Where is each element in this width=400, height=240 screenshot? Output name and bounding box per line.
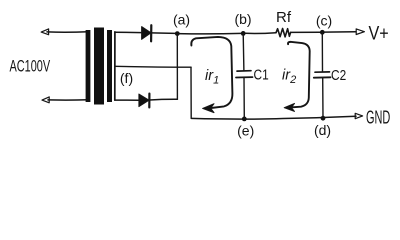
arrowhead [356, 29, 364, 35]
node e [242, 117, 247, 122]
svg-text:C1: C1 [254, 66, 269, 82]
wire [47, 31, 88, 34]
diode D1 [142, 25, 152, 41]
svg-text:GND: GND [366, 107, 390, 128]
label GND [366, 107, 390, 128]
label (c) [316, 13, 332, 29]
svg-text:C2: C2 [331, 67, 346, 83]
node b [241, 31, 246, 36]
label (d) [314, 122, 331, 138]
wire [152, 32, 176, 35]
wire [191, 116, 356, 119]
label C2 [331, 67, 346, 83]
wire [177, 32, 241, 34]
current loop ir1 [191, 37, 232, 113]
wire [245, 32, 276, 35]
arrowhead [41, 29, 48, 35]
resistor Rf [276, 29, 291, 37]
label C1 [254, 66, 269, 82]
svg-text:AC100V: AC100V [10, 57, 51, 76]
svg-text:(a): (a) [173, 12, 190, 28]
capacitor C1 [236, 33, 253, 119]
label ir1 [205, 68, 219, 87]
label (e) [237, 123, 254, 139]
wire [115, 65, 191, 68]
label (a) [173, 12, 190, 28]
label Rf [276, 9, 292, 26]
transformer [86, 28, 115, 105]
svg-text:(c): (c) [316, 13, 332, 29]
node a [175, 31, 180, 36]
svg-text:V+: V+ [369, 22, 389, 44]
node c [320, 30, 325, 35]
wire [150, 98, 178, 101]
svg-text:(f): (f) [120, 70, 133, 86]
wire [325, 31, 357, 33]
node d [321, 116, 326, 121]
arrowhead [42, 97, 49, 103]
capacitor C2 [314, 32, 331, 118]
label (f) [120, 70, 133, 86]
wire [115, 99, 139, 101]
svg-text:(e): (e) [237, 123, 254, 139]
diode D2 [139, 94, 150, 108]
label (b) [234, 11, 251, 27]
current loop ir2 [284, 42, 310, 112]
svg-text:(b): (b) [234, 11, 251, 27]
arrowhead [355, 113, 362, 118]
wire [176, 34, 178, 100]
wire [291, 31, 320, 33]
svg-text:Rf: Rf [276, 9, 292, 26]
wire [115, 31, 142, 33]
svg-text:(d): (d) [314, 122, 331, 138]
wire [190, 67, 192, 118]
wire [48, 99, 88, 101]
label AC100V [10, 57, 51, 76]
label ir2 [282, 68, 296, 87]
label V+ [369, 22, 389, 44]
